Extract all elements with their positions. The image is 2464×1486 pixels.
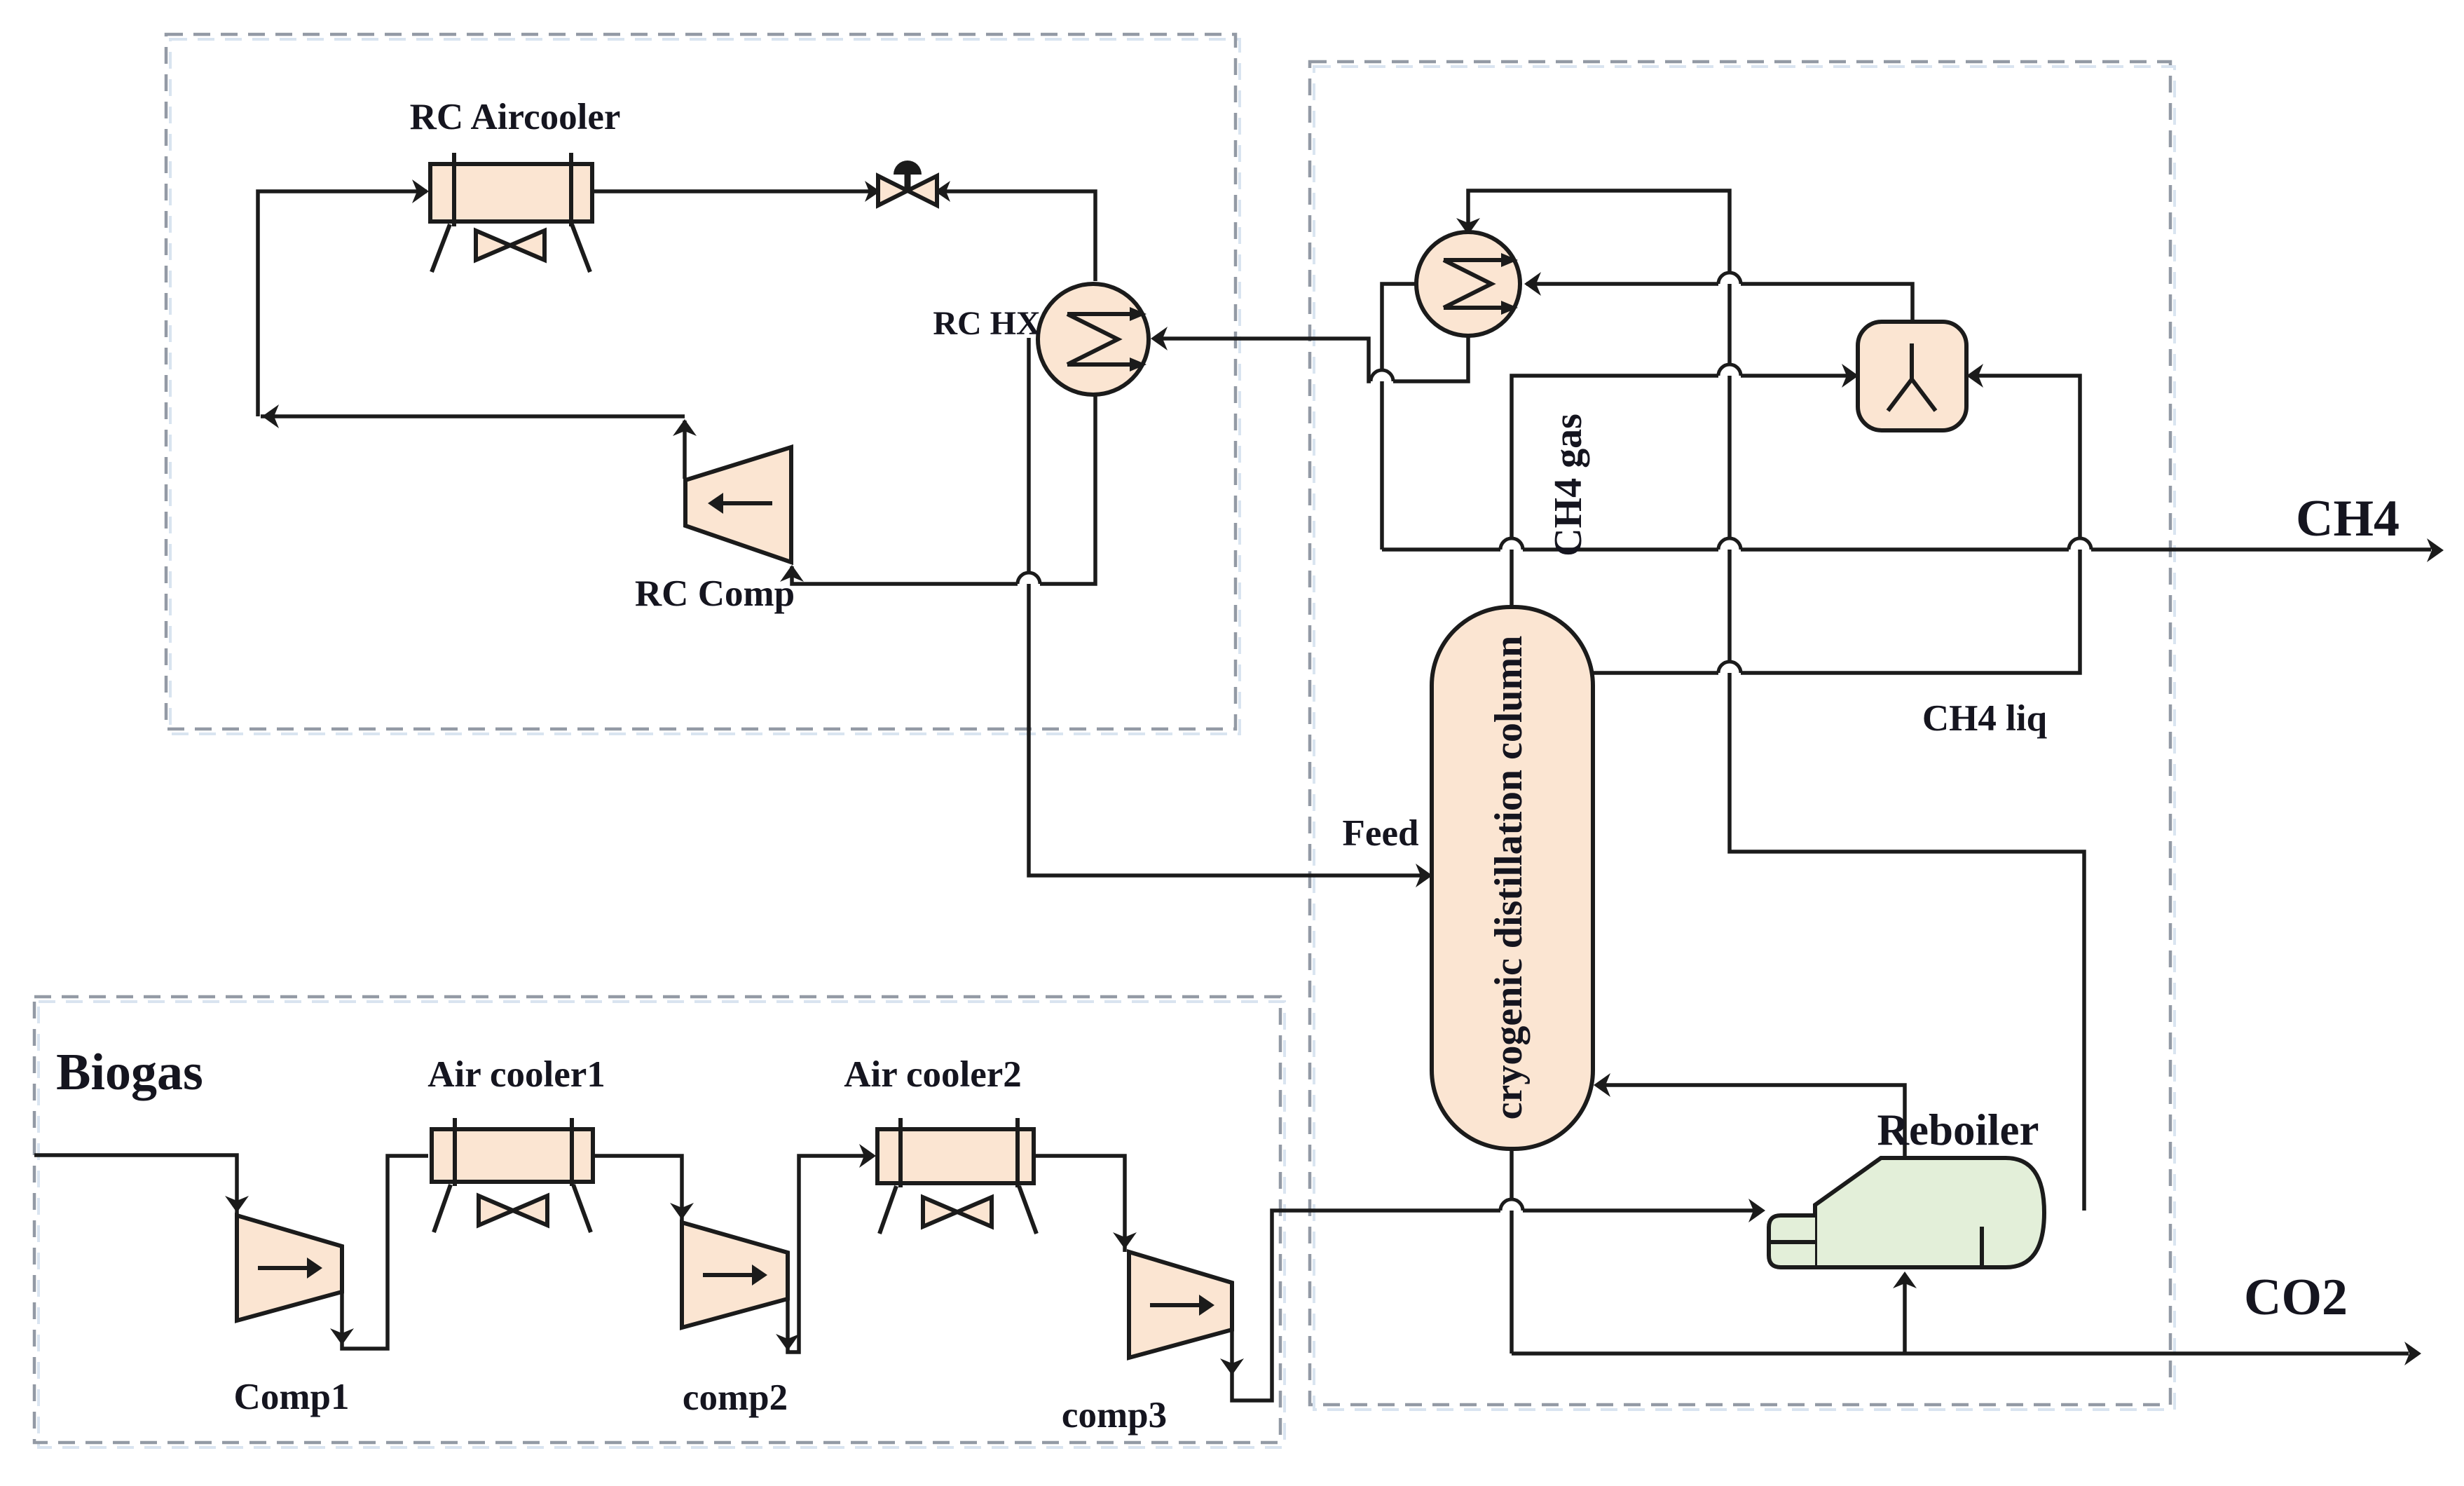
wire: column overhead CH4 gas riser — [1512, 376, 1718, 607]
wire hop at condenser left riser — [1371, 370, 1393, 381]
heat exchanger RC Aircooler — [430, 153, 592, 272]
svg-text:Reboiler: Reboiler — [1877, 1105, 2039, 1154]
compressor comp2 — [682, 1222, 788, 1328]
svg-text:RC HX: RC HX — [933, 305, 1041, 342]
dashed box: biogas compression — [34, 997, 1280, 1443]
svg-text:RC Comp: RC Comp — [635, 573, 795, 614]
arrow CO2 product — [2404, 1342, 2421, 1365]
heat exchanger Air cooler2 — [877, 1118, 1036, 1234]
arrow into Comp1 — [225, 1196, 249, 1213]
arrow into RC Aircooler — [412, 179, 429, 203]
wire hop on CH4 liq line at loop riser — [1718, 662, 1741, 673]
arrow into reboiler inlet — [1748, 1199, 1765, 1222]
arrow Comp3 outlet down — [1220, 1358, 1244, 1375]
wire: CH4 product line segment 1 — [1382, 547, 1500, 552]
wire: valve to RC HX top — [939, 191, 1095, 281]
wire hop at loop riser on separator feed line — [1718, 364, 1741, 376]
arrow into RC HX right port — [1151, 327, 1168, 350]
wire: RC HX bottom to RC Comp inlet — [1040, 395, 1095, 584]
wire: condenser bottom line after hop, up, to RC HX arrow — [1154, 339, 1371, 381]
wire: separator top to condenser right line — [1741, 284, 1912, 322]
svg-text:CO2: CO2 — [2244, 1269, 2348, 1326]
wire: column bottoms down to CO2 line — [1510, 1149, 1514, 1354]
wire: condenser top loop from reboiler — [1468, 191, 2084, 1211]
arrow Comp2 outlet down — [776, 1334, 800, 1351]
arrow feed into column — [1416, 864, 1432, 887]
svg-text:Biogas: Biogas — [56, 1044, 203, 1101]
arrow CH4 product — [2427, 538, 2444, 562]
arrow into reboiler bottom — [1893, 1272, 1917, 1288]
arrow reboiler vapor into column — [1594, 1073, 1610, 1097]
arrow into separator right — [1966, 364, 1983, 388]
wire: Air cooler2 outlet to Comp3 — [1034, 1156, 1125, 1252]
heat exchanger RC HX — [1038, 284, 1149, 395]
svg-text:CH4: CH4 — [2296, 490, 2400, 547]
wire: CH4 liq line after hop up to separator right — [1741, 376, 2080, 673]
wire hop on CH4 line at CH4 gas riser — [1500, 538, 1523, 550]
column: cryogenic distillation column — [1432, 607, 1593, 1149]
compressor Comp1 — [237, 1215, 342, 1321]
heat exchanger Air cooler1 — [432, 1118, 593, 1232]
wire hop on reboiler feed line at column bottoms — [1500, 1199, 1523, 1211]
svg-text:Air cooler2: Air cooler2 — [844, 1054, 1022, 1095]
wire: RC Comp discharge to left — [261, 414, 685, 418]
separator — [1858, 322, 1966, 430]
wire: CH4 product line segment 2 — [1523, 547, 1718, 552]
wire hop on CH4 line at loop riser — [1718, 538, 1741, 550]
wire: RC Aircooler outlet to valve — [592, 189, 876, 193]
svg-text:CH4 liq: CH4 liq — [1922, 698, 2047, 739]
svg-text:Feed: Feed — [1343, 813, 1419, 854]
arrow into Comp2 — [670, 1203, 694, 1220]
arrow into valve right — [935, 181, 950, 202]
wire: Air cooler1 outlet to Comp2 — [593, 1156, 682, 1222]
svg-text:cryogenic distillation column: cryogenic distillation column — [1487, 636, 1531, 1120]
svg-text:RC Aircooler: RC Aircooler — [410, 97, 621, 137]
arrow into RC Comp bottom — [780, 565, 804, 582]
wire: CH4 liq line from column — [1593, 671, 1718, 675]
valve V1 — [878, 161, 937, 205]
dashed box: refrigeration cycle — [166, 34, 1236, 729]
wire: RC Comp inlet segment after hop — [792, 566, 1018, 584]
heat exchanger condenser — [1416, 232, 1520, 336]
wire: CH4 product line segment 4 to arrow — [2091, 547, 2431, 552]
arrow into Air cooler2 — [859, 1144, 876, 1168]
wire hop on CH4 line at separator right riser — [2069, 538, 2091, 550]
arrow into condenser right port — [1524, 272, 1541, 296]
compressor RC Comp — [685, 447, 791, 562]
wire: CH4 product line segment 3 — [1741, 547, 2069, 552]
dashed box: cryogenic separation — [1310, 62, 2170, 1405]
arrow into condenser top — [1456, 218, 1480, 235]
arrow RC Comp outlet up — [673, 419, 697, 436]
svg-text:Comp1: Comp1 — [234, 1377, 350, 1417]
wire: reboiler vapor return to column — [1599, 1085, 1905, 1158]
arrow at RC return corner — [262, 404, 279, 428]
wire: condenser left port down to CH4 line corner — [1382, 284, 1416, 550]
reboiler — [1769, 1158, 2044, 1267]
wire: Comp2 outlet jog to Air cooler2 — [788, 1156, 873, 1352]
wire: RC Comp outlet riser — [683, 421, 687, 479]
wire: RC loop left riser to RC Aircooler inlet — [258, 191, 427, 416]
wire hop at loop riser on condenser right line — [1718, 273, 1741, 284]
wire: Comp1 outlet jog to Air cooler1 — [342, 1156, 428, 1349]
compressor comp3 — [1129, 1252, 1232, 1358]
wire: biogas feed to Comp1 — [34, 1155, 237, 1215]
svg-text:comp2: comp2 — [683, 1377, 788, 1418]
wire: Comp3 outlet jog — [1232, 1211, 1500, 1400]
wire: condenser bottom to RC HX right port — [1393, 336, 1468, 381]
arrow into Comp3 — [1113, 1232, 1137, 1249]
wire: Comp3 discharge to reboiler after hop — [1523, 1208, 1763, 1213]
arrow Comp1 outlet down — [330, 1328, 354, 1345]
wire: CO2 product line — [1512, 1351, 2409, 1356]
arrow into valve left — [865, 181, 880, 202]
arrow into separator left — [1842, 364, 1859, 388]
wire: overhead to separator left after hop — [1741, 374, 1856, 378]
wire hop at feed riser — [1018, 573, 1040, 584]
wire: condenser right line after hop with arrow — [1526, 282, 1718, 286]
svg-text:CH4 gas: CH4 gas — [1547, 414, 1590, 557]
svg-text:comp3: comp3 — [1062, 1395, 1167, 1436]
svg-text:Air cooler1: Air cooler1 — [427, 1054, 605, 1095]
wire: feed line from RC HX down and to column — [1029, 338, 1430, 875]
wire: reboiler bottom draw — [1903, 1276, 1907, 1354]
